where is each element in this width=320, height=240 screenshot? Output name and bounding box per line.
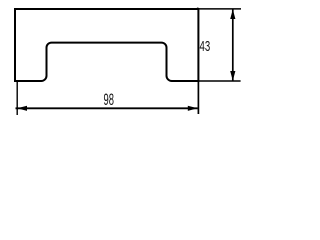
top extension line [198,8,241,10]
bridge-profile outline [15,9,198,81]
svg-text:43: 43 [200,38,211,55]
98 left arrowhead [17,106,27,111]
43 top arrowhead [230,9,235,19]
bottom extension line [198,80,240,82]
right edge tick above top [197,8,199,10]
right edge extension down (98 dim) [197,81,199,114]
43 bottom arrowhead [230,71,235,81]
98 right arrowhead [188,106,198,111]
43 dimension line [232,9,234,81]
98 dimension line [16,107,198,109]
svg-text:98: 98 [103,90,113,108]
left extension line (98 dim) [16,82,18,115]
